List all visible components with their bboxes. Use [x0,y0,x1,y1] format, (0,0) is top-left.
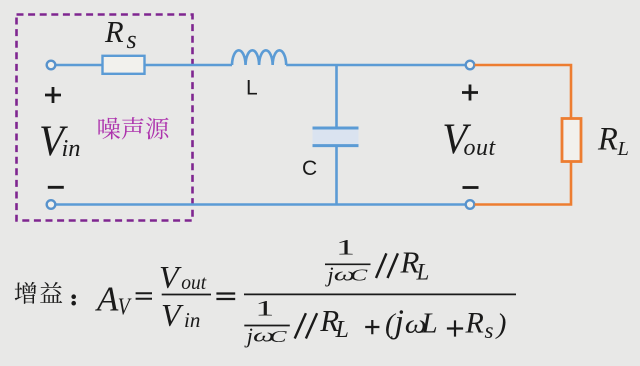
svg-text:out: out [181,273,207,294]
svg-text:R: R [104,15,124,49]
wire: RL to Vout- (bottom) [475,162,571,205]
svg-text:L: L [246,77,258,100]
svg-text:V: V [118,294,132,320]
svg-text:A: A [95,279,119,318]
svg-text:out: out [464,135,497,161]
svg-text:L: L [617,138,629,160]
node: Vin- terminal [47,200,56,209]
gain formula: 增益 label [15,282,37,304]
wire: inductor to Vout+ terminal [286,64,466,67]
svg-text:s: s [127,25,137,54]
parallel slashes // (numerator) [376,253,398,278]
wire: Rs to inductor L [145,64,232,67]
plus sign 2 [447,320,463,336]
equals sign 2 [216,294,235,300]
svg-text:L: L [335,317,349,343]
parallel slashes // (denominator) [295,313,317,338]
gain formula: fullwidth colon [71,294,76,299]
node: Vout- terminal [466,200,475,209]
svg-text:in: in [184,308,200,332]
plus sign 1 [365,320,379,334]
wire: top node down to capacitor C [335,65,338,128]
node: Vout+ terminal [466,61,475,70]
load resistor RL [562,119,581,162]
wire: bottom rail Vin- to Vout- [55,203,466,206]
nested fraction 1/jwC (denominator) [244,296,290,349]
wire: capacitor C down to bottom rail [335,146,338,205]
svg-text:in: in [62,135,81,162]
node: Vin+ terminal [47,61,56,70]
polarity - (Vin) [48,186,64,189]
svg-text:s: s [485,318,494,343]
label 噪声源 (noise source) [98,117,120,139]
svg-text:R: R [465,306,484,339]
wire: Vin+ terminal to Rs [55,64,102,67]
inductor L [232,50,286,65]
svg-text:V: V [161,297,184,333]
equals sign 1 [136,293,152,298]
capacitor C [313,128,359,146]
svg-text:R: R [597,122,618,158]
resistor Rs [103,56,145,74]
svg-text:): ) [495,308,507,340]
svg-text:L: L [421,307,438,339]
svg-text:C: C [302,157,317,180]
polarity + (Vin) [45,87,61,103]
noise source boundary box [17,15,193,221]
svg-text:V: V [159,259,182,295]
main fraction bar [244,293,516,295]
svg-text:L: L [416,259,430,284]
polarity + (Vout) [462,85,478,101]
wire: Vout+ to load RL (top) [475,65,571,119]
polarity - (Vout) [463,186,479,189]
